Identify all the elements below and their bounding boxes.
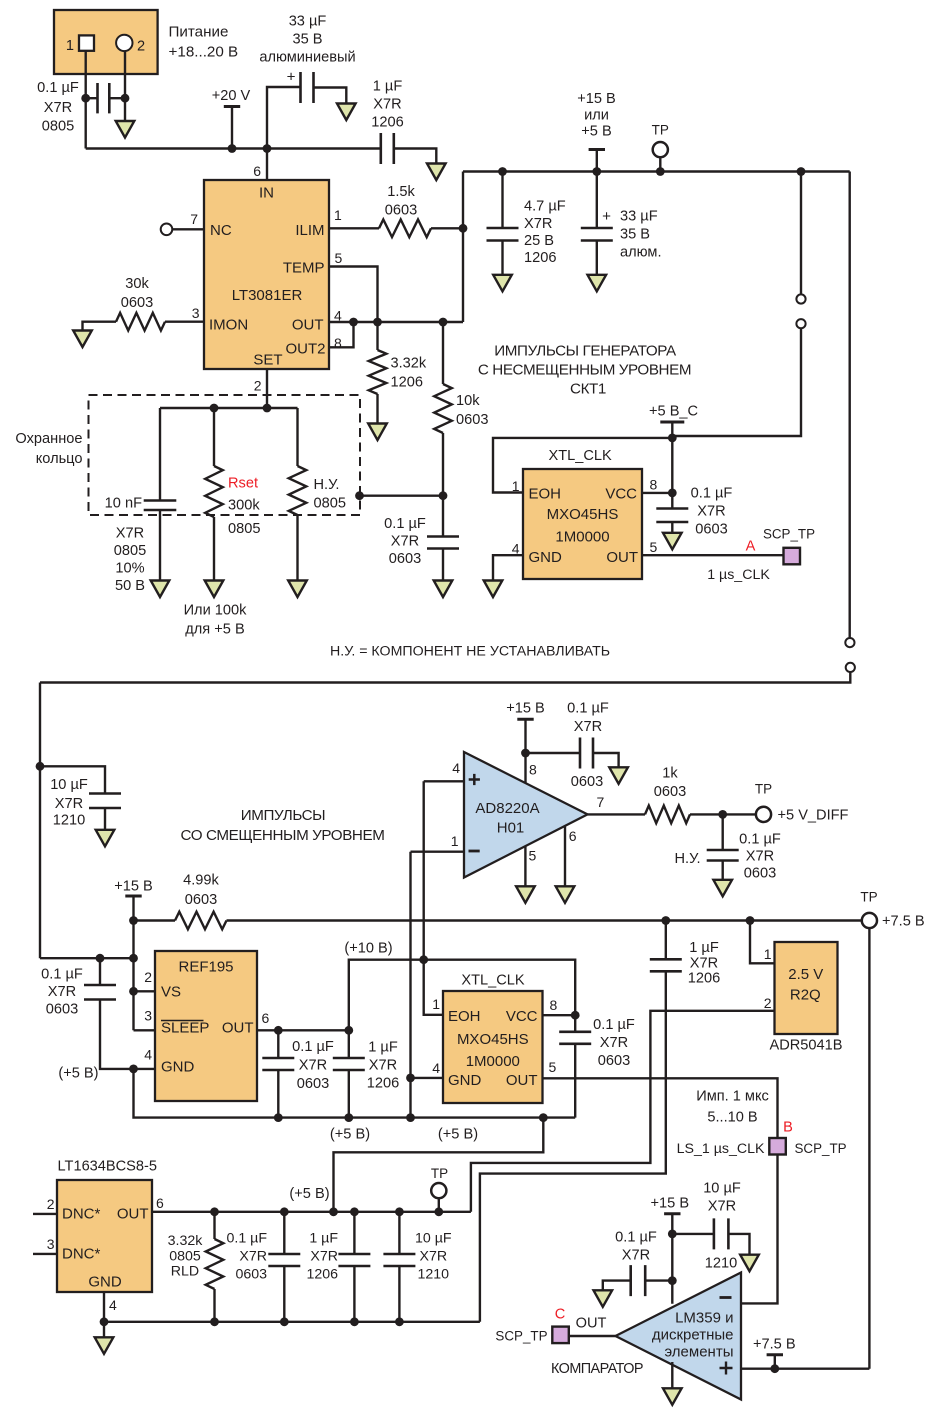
svg-text:MXO45HS: MXO45HS	[547, 506, 619, 523]
svg-text:EOH: EOH	[448, 1008, 481, 1025]
svg-text:6: 6	[253, 163, 261, 179]
wire R4 bottom	[442, 433, 444, 496]
svg-text:1 µF: 1 µF	[689, 940, 719, 956]
node gnd rail R7	[210, 1317, 219, 1326]
svg-text:0805: 0805	[42, 119, 74, 135]
ground at U2 GND	[484, 581, 503, 598]
wire C14 bottom to gnd rail	[480, 971, 666, 1322]
svg-text:1 µF: 1 µF	[309, 1231, 338, 1247]
wire TEMP	[329, 267, 378, 323]
svg-text:0805: 0805	[169, 1249, 201, 1265]
svg-text:35 В: 35 В	[292, 32, 322, 48]
node +7.5V tap	[770, 1364, 779, 1373]
svg-text:X7R: X7R	[55, 796, 83, 812]
svg-text:Охранное: Охранное	[15, 431, 82, 447]
node C14 tap	[661, 916, 670, 925]
node C11 tap	[274, 1026, 283, 1035]
label +15 В или +5 В	[577, 91, 616, 140]
svg-text:Н.У.: Н.У.	[314, 477, 340, 493]
svg-text:X7R: X7R	[697, 504, 725, 520]
svg-text:1206: 1206	[306, 1267, 338, 1283]
connector break lower circle	[796, 319, 805, 328]
svg-text:X7R: X7R	[622, 1248, 650, 1264]
svg-text:0603: 0603	[235, 1267, 267, 1283]
svg-text:REF195: REF195	[178, 959, 233, 976]
header ИМПУЛЬСЫ ГЕНЕРАТОРА С НЕСМЕЩЕННЫМ УРОВНЕМ СКТ1	[478, 343, 691, 398]
svg-text:C: C	[555, 1307, 566, 1323]
svg-text:1: 1	[334, 207, 342, 223]
node C6 tap	[498, 167, 507, 176]
svg-text:OUT: OUT	[576, 1316, 607, 1332]
node R6/C16 junction	[718, 810, 727, 819]
svg-text:Или 100k: Или 100k	[184, 603, 248, 619]
capacitor C16 0.1uF X7R 0603 (Н.У.)	[707, 850, 739, 861]
svg-text:TP: TP	[860, 890, 877, 905]
resistor R1 30k 0603	[116, 313, 165, 331]
IC U2 inner labels	[529, 486, 639, 567]
svg-text:+15 В: +15 В	[506, 701, 545, 717]
test point SCP_TP C (square)	[552, 1327, 569, 1344]
node +10B / plus input tie	[419, 955, 428, 964]
ground at pin5	[516, 886, 535, 903]
svg-text:XTL_CLK: XTL_CLK	[461, 973, 525, 989]
wire C6 to ground	[501, 241, 503, 275]
svg-text:1 µF: 1 µF	[373, 79, 403, 95]
capacitor C21 10uF X7R 1210	[383, 1254, 415, 1266]
wire C6 top	[501, 172, 503, 228]
wire +5B drop to OUT rail	[334, 1118, 544, 1212]
wire C15 left stub	[526, 752, 581, 754]
ground at C4	[151, 581, 170, 598]
svg-text:0603: 0603	[456, 412, 488, 428]
svg-text:SCP_TP: SCP_TP	[763, 527, 815, 542]
header ИМПУЛЬСЫ СО СМЕЩЕННЫМ УРОВНЕМ	[180, 807, 384, 844]
wire R3 top	[376, 322, 378, 350]
label C1 0.1uF X7R 0805	[37, 80, 79, 135]
svg-text:С НЕСМЕЩЕННЫМ УРОВНЕМ: С НЕСМЕЩЕННЫМ УРОВНЕМ	[478, 362, 691, 379]
svg-text:LT3081ER: LT3081ER	[232, 287, 303, 304]
capacitor C3 1uF X7R 1206 (series)	[381, 133, 394, 164]
svg-text:X7R: X7R	[48, 984, 76, 1000]
wire op amp pin8 supply	[524, 720, 526, 783]
IC U8 inner labels	[62, 1206, 149, 1291]
label C7 33uF 35 В алюм.	[620, 209, 662, 261]
svg-text:ИМПУЛЬСЫ ГЕНЕРАТОРА: ИМПУЛЬСЫ ГЕНЕРАТОРА	[494, 343, 677, 360]
svg-text:7: 7	[597, 794, 605, 810]
ground at C6	[493, 275, 512, 292]
svg-text:33 µF: 33 µF	[289, 14, 327, 30]
wire minus input bus	[409, 852, 411, 1118]
svg-text:6: 6	[569, 828, 577, 844]
wire U5 pin2 to OUT rail	[471, 1011, 775, 1212]
wire C12 bottom	[348, 1070, 350, 1118]
svg-text:Имп. 1 мкс: Имп. 1 мкс	[696, 1089, 769, 1105]
IC U3 REF195	[155, 951, 257, 1101]
capacitor C15 0.1uF X7R 0603	[580, 738, 593, 769]
svg-text:+18...20 В: +18...20 В	[169, 44, 239, 61]
svg-text:TP: TP	[652, 123, 669, 138]
svg-text:2: 2	[254, 378, 262, 394]
ground at C3	[427, 164, 446, 181]
resistor Н.У. 0805 (not fitted)	[289, 466, 307, 515]
node U4 GND tie	[406, 1074, 415, 1083]
connector J1 pin 1 (square pad)	[79, 35, 94, 50]
capacitor C11 0.1uF X7R 0603	[262, 1058, 294, 1070]
wire C11 top	[277, 1030, 279, 1057]
node IN junction	[263, 144, 272, 153]
svg-text:OUT: OUT	[292, 317, 324, 334]
svg-text:1: 1	[451, 833, 459, 849]
capacitor C17 10uF X7R 1210	[714, 1218, 729, 1249]
svg-text:0805: 0805	[228, 521, 260, 537]
svg-text:MXO45HS: MXO45HS	[457, 1031, 529, 1048]
svg-text:DNC*: DNC*	[62, 1206, 100, 1223]
svg-text:0.1 µF: 0.1 µF	[615, 1230, 657, 1246]
svg-text:2: 2	[47, 1196, 55, 1212]
test point TP2 (+5 V_DIFF)	[756, 807, 771, 822]
svg-text:IMON: IMON	[209, 317, 248, 334]
wire R4 top	[442, 322, 444, 384]
ground at J1 pin2	[116, 121, 135, 138]
svg-text:1206: 1206	[688, 971, 720, 987]
ground at R3	[368, 424, 387, 441]
svg-text:X7R: X7R	[391, 534, 419, 550]
capacitor C9 10uF X7R 1210	[89, 794, 121, 809]
node +15V tap	[592, 167, 601, 176]
wire TP4 down to comparator plus	[868, 928, 870, 1369]
svg-text:10 nF: 10 nF	[105, 496, 142, 512]
svg-text:4.99k: 4.99k	[183, 873, 219, 889]
wire R1 to ground	[83, 322, 117, 331]
wire U3 SLEEP	[134, 1029, 156, 1031]
power +15V/+5V bar	[589, 148, 605, 151]
wire rail left vertical	[462, 172, 464, 323]
svg-text:2: 2	[144, 969, 152, 985]
svg-text:XTL_CLK: XTL_CLK	[549, 448, 613, 464]
ground at comparator	[663, 1388, 682, 1405]
op-amp U6 AD8220A (triangle)	[464, 752, 588, 878]
ground at C17	[740, 1255, 759, 1272]
svg-text:X7R: X7R	[116, 526, 144, 542]
label C2 33uF 35V алюминиевый	[259, 14, 355, 66]
svg-text:25 В: 25 В	[524, 233, 554, 249]
svg-text:СКТ1: СКТ1	[570, 381, 606, 398]
svg-text:X7R: X7R	[708, 1199, 736, 1215]
capacitor C6 4.7uF X7R 25V 1206	[487, 228, 519, 241]
wire J1 pin1 down	[84, 51, 86, 149]
wire OUT line	[329, 321, 463, 323]
svg-text:+5 В_C: +5 В_C	[649, 404, 698, 420]
svg-text:GND: GND	[448, 1072, 482, 1089]
svg-text:1M0000: 1M0000	[466, 1053, 520, 1070]
wire op amp pin5	[524, 846, 526, 886]
wire C10 bottom to GND pin	[100, 1000, 134, 1069]
svg-text:IN: IN	[259, 185, 274, 202]
svg-text:H01: H01	[497, 820, 525, 837]
ground at C2	[337, 104, 356, 121]
node gnd rail C20	[350, 1317, 359, 1326]
wire comparator bottom gnd	[671, 1362, 673, 1388]
node right branch	[797, 167, 806, 176]
svg-text:1: 1	[432, 996, 440, 1012]
capacitor C2 33uF 35V aluminium (polarized)	[301, 72, 314, 103]
guard ring dashed box	[89, 395, 361, 515]
svg-text:LS_1 µs_CLK: LS_1 µs_CLK	[677, 1141, 765, 1157]
label C4 X7R 0805 10% 50 В	[114, 526, 146, 595]
svg-text:X7R: X7R	[574, 719, 602, 735]
node R7 tap	[210, 1207, 219, 1216]
svg-text:+15 В: +15 В	[651, 1196, 690, 1212]
svg-text:0603: 0603	[695, 522, 727, 538]
resistor R5 4.99k 0603	[175, 912, 227, 930]
wire C9 branch	[40, 766, 105, 793]
wire break to +5V_C node	[672, 328, 801, 436]
wire R-NU to ground	[296, 515, 298, 581]
node U5 pin1 tap	[746, 916, 755, 925]
wire U4 OUT to SCP_TP B	[543, 1078, 778, 1138]
svg-text:элементы: элементы	[664, 1344, 733, 1361]
svg-text:ILIM: ILIM	[295, 222, 324, 239]
wire TP1 stub	[659, 157, 661, 171]
wire U3 GND to +5B rail	[134, 1069, 576, 1118]
label C14 1uF X7R 1206	[688, 940, 720, 987]
wire C20 top	[353, 1212, 355, 1254]
node gnd rail C21	[395, 1317, 404, 1326]
wire +5V_C stub	[671, 422, 673, 438]
svg-text:1206: 1206	[371, 115, 403, 131]
wire C1 left stub	[86, 97, 98, 99]
svg-text:+7.5 В: +7.5 В	[753, 1337, 796, 1353]
wire OUT2	[329, 322, 354, 347]
test point TP1	[653, 142, 668, 157]
wire R6 to TP2	[690, 813, 756, 815]
wire R7 top	[213, 1212, 215, 1239]
wire XTL_CLK EOH loop	[493, 438, 672, 493]
node +15V rail tap	[129, 916, 138, 925]
node TP1 tap	[656, 167, 665, 176]
IC U2 MXO45HS 1M0000 oscillator	[523, 469, 642, 579]
svg-text:10 µF: 10 µF	[703, 1181, 741, 1197]
wire C5 to ground	[442, 549, 444, 581]
wire C12 top	[348, 1030, 350, 1057]
svg-text:+: +	[602, 208, 611, 225]
wire left feed vertical	[39, 683, 41, 959]
wire SET down	[266, 369, 268, 408]
svg-text:1M0000: 1M0000	[555, 529, 609, 546]
svg-text:GND: GND	[88, 1274, 122, 1291]
wire IMON to R1	[165, 321, 204, 323]
svg-text:0603: 0603	[598, 1053, 630, 1069]
wire +10B riser	[349, 960, 575, 1031]
label C16 0.1uF X7R 0603	[739, 832, 781, 882]
wire comparator supply	[671, 1214, 673, 1304]
svg-text:AD8220A: AD8220A	[475, 800, 539, 817]
svg-text:1 µF: 1 µF	[368, 1040, 398, 1056]
svg-text:кольцо: кольцо	[36, 451, 83, 467]
svg-text:8: 8	[550, 997, 558, 1013]
node C17 tap	[668, 1230, 677, 1239]
svg-text:VS: VS	[161, 984, 181, 1001]
connector J1 (Питание)	[54, 10, 158, 74]
wire Rset top	[213, 408, 215, 466]
svg-text:Н.У. = КОМПОНЕНТ НЕ УСТАНАВЛИВ: Н.У. = КОМПОНЕНТ НЕ УСТАНАВЛИВАТЬ	[330, 644, 610, 660]
svg-text:+20 V: +20 V	[212, 88, 251, 104]
svg-text:0.1 µF: 0.1 µF	[593, 1017, 635, 1033]
wire U5 pin1	[750, 921, 775, 964]
svg-text:0603: 0603	[744, 866, 776, 882]
svg-text:+5 В: +5 В	[581, 124, 611, 140]
ground at C18	[594, 1290, 613, 1307]
wire +20V input line	[86, 147, 381, 149]
label (+5 B) rail right	[438, 1127, 478, 1143]
svg-text:Н.У.: Н.У.	[675, 851, 701, 867]
svg-text:алюм.: алюм.	[620, 245, 662, 261]
wire plus input	[424, 780, 464, 782]
wire op amp pin6	[564, 826, 566, 886]
svg-text:0.1 µF: 0.1 µF	[567, 701, 609, 717]
label R7 3.32k 0805 RLD	[168, 1233, 204, 1280]
svg-text:0603: 0603	[121, 295, 153, 311]
IC U3 inner labels	[161, 959, 254, 1076]
power +7.5V bar	[767, 1353, 783, 1356]
IC U1 pin numbers	[190, 163, 342, 394]
svg-text:1210: 1210	[53, 813, 85, 829]
wire LT1634 ground rail	[104, 1321, 480, 1323]
wire ILIM to R2	[329, 227, 379, 229]
svg-text:OUT: OUT	[506, 1072, 538, 1089]
svg-text:50 В: 50 В	[115, 578, 145, 594]
svg-text:0603: 0603	[297, 1076, 329, 1092]
label Охранное кольцо	[15, 431, 82, 467]
svg-text:8: 8	[650, 477, 658, 493]
svg-text:X7R: X7R	[239, 1249, 267, 1265]
svg-text:10 µF: 10 µF	[415, 1231, 452, 1247]
capacitor C8 0.1uF X7R 0603	[656, 509, 688, 523]
wire C19 top	[283, 1212, 285, 1254]
ground at pin6	[556, 886, 575, 903]
ground at C16	[713, 880, 732, 897]
comparator U7 plus sign	[720, 1362, 733, 1375]
svg-text:LM359 и: LM359 и	[675, 1310, 733, 1327]
svg-text:1 µs_CLK: 1 µs_CLK	[707, 567, 770, 583]
svg-text:X7R: X7R	[600, 1035, 628, 1051]
node OUT2 tie	[349, 318, 358, 327]
svg-text:0.1 µF: 0.1 µF	[292, 1039, 334, 1055]
wire U8 pin2 stub	[33, 1213, 57, 1215]
op-amp U6 minus sign (pin 1)	[469, 850, 480, 853]
label Имп. 1 мкс 5...10 В	[696, 1089, 769, 1126]
wire C17 stub	[672, 1233, 714, 1235]
svg-text:1210: 1210	[705, 1256, 737, 1272]
node guard ring tap	[355, 491, 364, 500]
wire C21 bottom	[398, 1266, 400, 1322]
svg-text:1210: 1210	[418, 1267, 450, 1283]
svg-text:3: 3	[144, 1008, 152, 1024]
connector break circle lower right	[846, 663, 855, 672]
wire C1 right stub	[109, 97, 125, 99]
svg-text:5: 5	[529, 848, 537, 864]
node +5B drop rail tie	[539, 1113, 548, 1122]
wire +15V stub (mid)	[132, 897, 134, 921]
svg-text:+: +	[287, 69, 296, 86]
node +5B drop OUT rail tie	[329, 1207, 338, 1216]
wire U3 OUT	[257, 1029, 349, 1031]
svg-text:OUT: OUT	[117, 1206, 149, 1223]
resistor R3 3.32k 1206	[369, 350, 387, 394]
wire C2 to ground	[314, 88, 347, 104]
svg-text:TP: TP	[755, 782, 772, 797]
wire C16 top	[722, 814, 724, 849]
resistor R4 10k 0603	[434, 384, 452, 433]
wire minus input	[411, 851, 465, 853]
svg-text:0805: 0805	[314, 496, 346, 512]
svg-text:X7R: X7R	[310, 1249, 338, 1265]
svg-text:VCC: VCC	[506, 1008, 538, 1025]
label R5 4.99k 0603	[183, 873, 219, 909]
wire rail right corner down	[849, 172, 851, 638]
label C9 10uF X7R 1210	[50, 777, 88, 829]
svg-text:0.1 µF: 0.1 µF	[41, 967, 83, 983]
svg-text:X7R: X7R	[690, 956, 718, 972]
node TP3 tap	[434, 1207, 443, 1216]
node +20V tap	[228, 144, 237, 153]
IC U1 inner labels	[209, 185, 326, 369]
svg-text:4.7 µF: 4.7 µF	[524, 199, 566, 215]
svg-text:1206: 1206	[391, 375, 423, 391]
svg-text:OUT2: OUT2	[285, 341, 325, 358]
svg-text:X7R: X7R	[44, 100, 72, 116]
svg-text:(+10 B): (+10 B)	[344, 941, 392, 957]
comparator U7 LM359 (triangle)	[616, 1273, 742, 1400]
label C17 10uF X7R	[703, 1181, 741, 1215]
label C18 0.1uF X7R	[615, 1230, 657, 1264]
svg-text:NC: NC	[210, 222, 232, 239]
svg-text:2: 2	[137, 39, 145, 55]
resistor Rset 300k 0805	[205, 466, 223, 517]
IC U5 pin numbers	[764, 946, 772, 1011]
wire U8 gnd stub	[103, 1322, 105, 1338]
power +15V bar (mid)	[125, 895, 141, 898]
IC U3 SLEEP overline	[161, 1020, 204, 1022]
svg-text:3: 3	[47, 1236, 55, 1252]
resistor R2 1.5k 0603	[379, 220, 431, 238]
svg-text:3: 3	[192, 305, 200, 321]
svg-text:ИМПУЛЬСЫ: ИМПУЛЬСЫ	[241, 807, 325, 824]
svg-text:B: B	[783, 1120, 793, 1136]
svg-text:КОМПАРАТОР: КОМПАРАТОР	[551, 1361, 643, 1377]
wire U3 GND	[134, 1068, 156, 1070]
node R4 tie	[439, 318, 448, 327]
wire mid rail left	[134, 919, 176, 921]
svg-text:R2Q: R2Q	[790, 987, 821, 1004]
node +5V_C junction	[668, 434, 677, 443]
ground at C8	[663, 533, 682, 550]
wire NC pin	[172, 228, 204, 230]
label C19 0.1uF X7R 0603	[226, 1231, 267, 1283]
wire R-NU top	[296, 408, 298, 466]
wire C14 top	[665, 921, 667, 959]
resistor R6 1k 0603	[645, 806, 690, 824]
IC U3 pin numbers	[144, 969, 269, 1063]
wire C7 to ground	[596, 241, 598, 275]
svg-text:2.5 V: 2.5 V	[788, 966, 823, 983]
wire C4 top	[159, 408, 161, 500]
wire U4 VCC	[543, 1014, 576, 1016]
node C18 tap	[668, 1276, 677, 1285]
svg-text:OUT: OUT	[222, 1020, 254, 1037]
power +20V bar	[224, 105, 240, 108]
svg-text:A: A	[746, 539, 756, 555]
